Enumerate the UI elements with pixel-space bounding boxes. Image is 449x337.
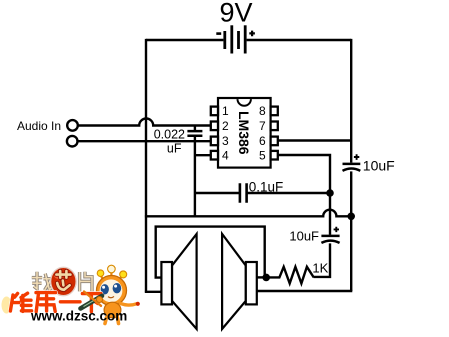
mascot stick: [84, 292, 101, 306]
wire 0.1uF right segment: [248, 192, 331, 194]
wire top rail right: [247, 39, 352, 41]
speaker right cone: [222, 234, 246, 329]
battery plus sign: [249, 31, 255, 37]
watermark shadow glyph: [2, 297, 12, 314]
mascot antenna balls: [97, 270, 104, 277]
svg-text:uF: uF: [167, 142, 182, 156]
speaker right driver: [246, 262, 257, 304]
speaker left cone: [172, 234, 197, 329]
junction dot resistor/speaker: [262, 274, 270, 282]
wire C1 bottom vertical to ground rail: [194, 137, 196, 216]
watermark glyph xin (chip) on circle: [56, 271, 70, 290]
svg-text:9V: 9V: [219, 0, 252, 28]
capacitor C3 10uF plates: [321, 235, 339, 238]
mascot eyes: [101, 284, 109, 294]
capacitor C4 10uF top-right plates: [343, 163, 361, 166]
mascot legs: [105, 318, 119, 324]
pin 2 box: [211, 122, 218, 131]
wire below dot through hop to C3: [329, 193, 331, 235]
svg-text:5: 5: [259, 149, 266, 163]
wire left rail: [145, 39, 147, 293]
wire bottom-left stub to speaker: [145, 291, 162, 293]
svg-text:6: 6: [259, 134, 266, 148]
wire right rail lower: [350, 216, 352, 291]
capacitor C1 0.022uF: [194, 126, 196, 131]
IC U1 LM386 body: [218, 98, 271, 168]
svg-text:LM386: LM386: [236, 111, 252, 155]
pin 3 box: [211, 137, 218, 146]
wire pin6 to right rail: [278, 139, 352, 141]
wire audio top with hop to pin 2: [78, 119, 211, 126]
wire speaker top link: [156, 227, 265, 278]
mascot head: [97, 276, 127, 306]
watermark red circle: [51, 267, 77, 295]
svg-text:7: 7: [259, 119, 266, 133]
wire 0.1uF left segment: [195, 192, 239, 194]
watermark text weikuyixia orange: [10, 293, 101, 312]
mascot right arm: [121, 304, 137, 306]
terminal J1 top circle: [67, 120, 78, 131]
svg-text:0.1uF: 0.1uF: [249, 179, 284, 194]
junction dot 0.1uF / pin5: [326, 189, 334, 197]
wire right rail upper: [350, 39, 352, 163]
terminal J2 bottom circle: [67, 136, 78, 147]
mascot body: [104, 302, 121, 318]
wire audio bottom to pin 3: [78, 140, 211, 142]
resistor R1 1K: [266, 267, 314, 284]
capacitor C2 0.1uF: [240, 183, 247, 202]
wire stub speaker right to dot: [257, 276, 266, 278]
pin 5 box: [271, 151, 278, 160]
battery B1: [225, 25, 245, 53]
wire bottom rail right: [257, 290, 353, 292]
pin 7 box: [271, 122, 278, 131]
pin 6 box: [271, 137, 278, 146]
svg-text:1: 1: [222, 104, 229, 118]
C3 plus sign: [334, 227, 339, 232]
wire top rail left: [146, 39, 223, 41]
watermark glyph pian (piece) gray: [80, 272, 92, 292]
mascot mouth: [108, 296, 114, 297]
svg-text:10uF: 10uF: [363, 157, 395, 173]
svg-text:10uF: 10uF: [289, 229, 319, 244]
wire C3 bottom to resistor: [314, 243, 331, 277]
pin 4 box: [211, 151, 218, 160]
pin 8 box: [271, 107, 278, 116]
junction dot right rail: [347, 213, 355, 221]
svg-text:4: 4: [222, 149, 229, 163]
svg-text:0.022: 0.022: [154, 128, 185, 142]
mascot face: [100, 279, 123, 302]
mascot pen dark: [81, 296, 103, 309]
watermark glyph zhao (find) gray: [32, 272, 52, 291]
battery minus sign: [216, 32, 221, 35]
mascot hand: [97, 297, 103, 303]
svg-text:3: 3: [222, 134, 229, 148]
svg-text:Audio In: Audio In: [17, 119, 61, 133]
svg-text:1K: 1K: [312, 260, 328, 275]
wire below C4: [350, 171, 352, 216]
pin 1 box: [211, 107, 218, 116]
wire pin4: [195, 154, 211, 156]
svg-text:8: 8: [259, 104, 266, 118]
C4 plus sign: [354, 154, 359, 160]
svg-text:www.dzsc.com: www.dzsc.com: [30, 308, 127, 323]
mascot antenna stalks: [101, 270, 123, 281]
speaker left driver: [161, 262, 172, 304]
svg-text:2: 2: [222, 119, 229, 133]
wire ground rail with hop: [145, 210, 351, 217]
wire pin5 to corner down: [278, 155, 330, 193]
IC notch: [238, 99, 251, 106]
